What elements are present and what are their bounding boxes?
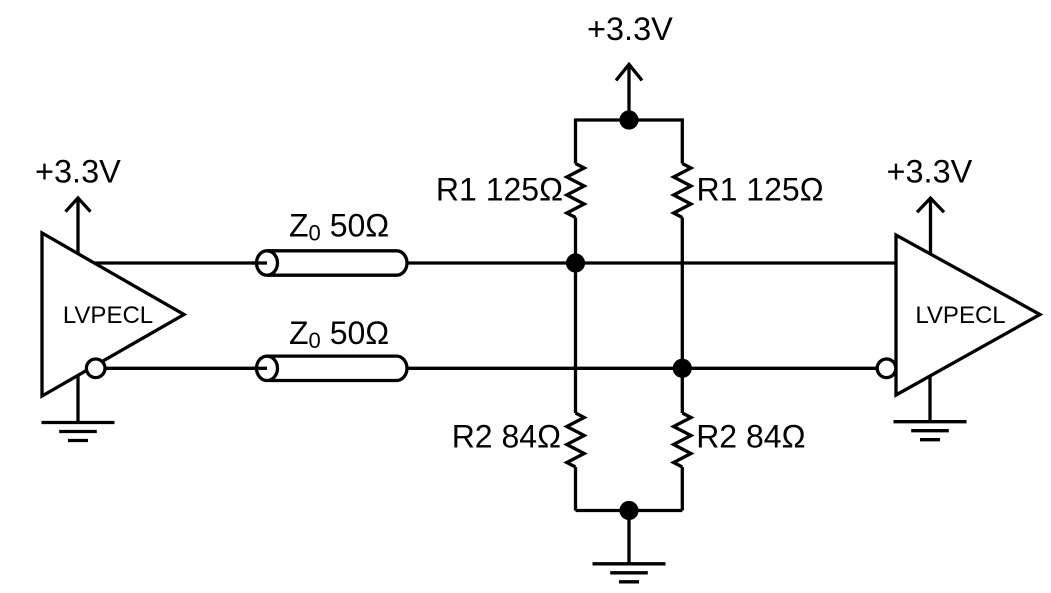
- power +3.3V label (driver): [35, 154, 121, 190]
- label Z0 50ohm (bottom transmission line): [289, 315, 389, 353]
- junction dot: node B (right branch joins complement signal): [673, 359, 692, 378]
- wire: complement signal (bottom) from driver inverting output to receiver: [96, 367, 878, 370]
- svg-text:+3.3V: +3.3V: [587, 11, 673, 47]
- svg-text:LVPECL: LVPECL: [915, 302, 1005, 329]
- junction dot: node A (left branch joins true signal): [566, 253, 585, 272]
- svg-text:R1 125Ω: R1 125Ω: [436, 172, 563, 208]
- label LVPECL (receiver): [915, 302, 1005, 329]
- wire: left branch middle segment (through true-line node, crossing bottom line): [574, 218, 577, 414]
- buffer U2 LVPECL receiver: [896, 235, 1040, 395]
- power +3.3V label (receiver): [887, 154, 973, 190]
- transmission line T2 (bottom coax): [252, 356, 407, 380]
- wire: true signal (top) from driver output to receiver input: [95, 261, 896, 264]
- power arrow (driver supply): [66, 198, 91, 254]
- resistor R2 (left): [567, 413, 584, 467]
- label R2 84ohm (left): [452, 419, 561, 455]
- transmission line T1 (top coax): [252, 251, 407, 275]
- power arrow (receiver supply): [917, 198, 944, 254]
- label R1 125ohm (right): [697, 172, 824, 208]
- ground (termination): [593, 511, 666, 582]
- junction dot: ground rail node: [619, 501, 638, 520]
- svg-text:R2 84Ω: R2 84Ω: [452, 419, 561, 455]
- resistor R1 (left): [567, 164, 584, 218]
- svg-text:LVPECL: LVPECL: [63, 302, 153, 329]
- label LVPECL (driver): [63, 302, 153, 329]
- svg-text:+3.3V: +3.3V: [35, 154, 121, 190]
- wire: ground rail (bottom of termination network): [576, 509, 683, 512]
- wire: left branch lower segment: [574, 467, 577, 511]
- power +3.3V label (termination): [587, 11, 673, 47]
- wire: +3.3V rail (top of termination network): [576, 118, 683, 121]
- inverting input bubble (receiver): [877, 359, 896, 378]
- inverting output bubble (driver): [86, 359, 105, 378]
- svg-text:Z0 50Ω: Z0 50Ω: [289, 315, 389, 353]
- wire: left branch upper segment: [574, 118, 577, 163]
- buffer U1 LVPECL driver: [42, 233, 184, 396]
- power arrow (termination supply): [616, 64, 642, 120]
- svg-text:R2 84Ω: R2 84Ω: [696, 419, 805, 455]
- wire: right branch upper segment (crossing true line): [681, 118, 684, 163]
- svg-text:+3.3V: +3.3V: [887, 154, 973, 190]
- svg-text:Z0 50Ω: Z0 50Ω: [289, 207, 389, 245]
- svg-text:R1 125Ω: R1 125Ω: [697, 172, 824, 208]
- ground (receiver): [894, 376, 967, 440]
- label R2 84ohm (right): [696, 419, 805, 455]
- ground (driver): [42, 375, 115, 440]
- resistor R1 (right): [674, 164, 691, 218]
- wire: right branch middle segment: [681, 218, 684, 414]
- junction dot: supply rail node: [619, 110, 638, 129]
- wire: right branch lower segment: [681, 467, 684, 511]
- label R1 125ohm (left): [436, 172, 563, 208]
- resistor R2 (right): [674, 413, 691, 467]
- label Z0 50ohm (top transmission line): [289, 207, 389, 245]
